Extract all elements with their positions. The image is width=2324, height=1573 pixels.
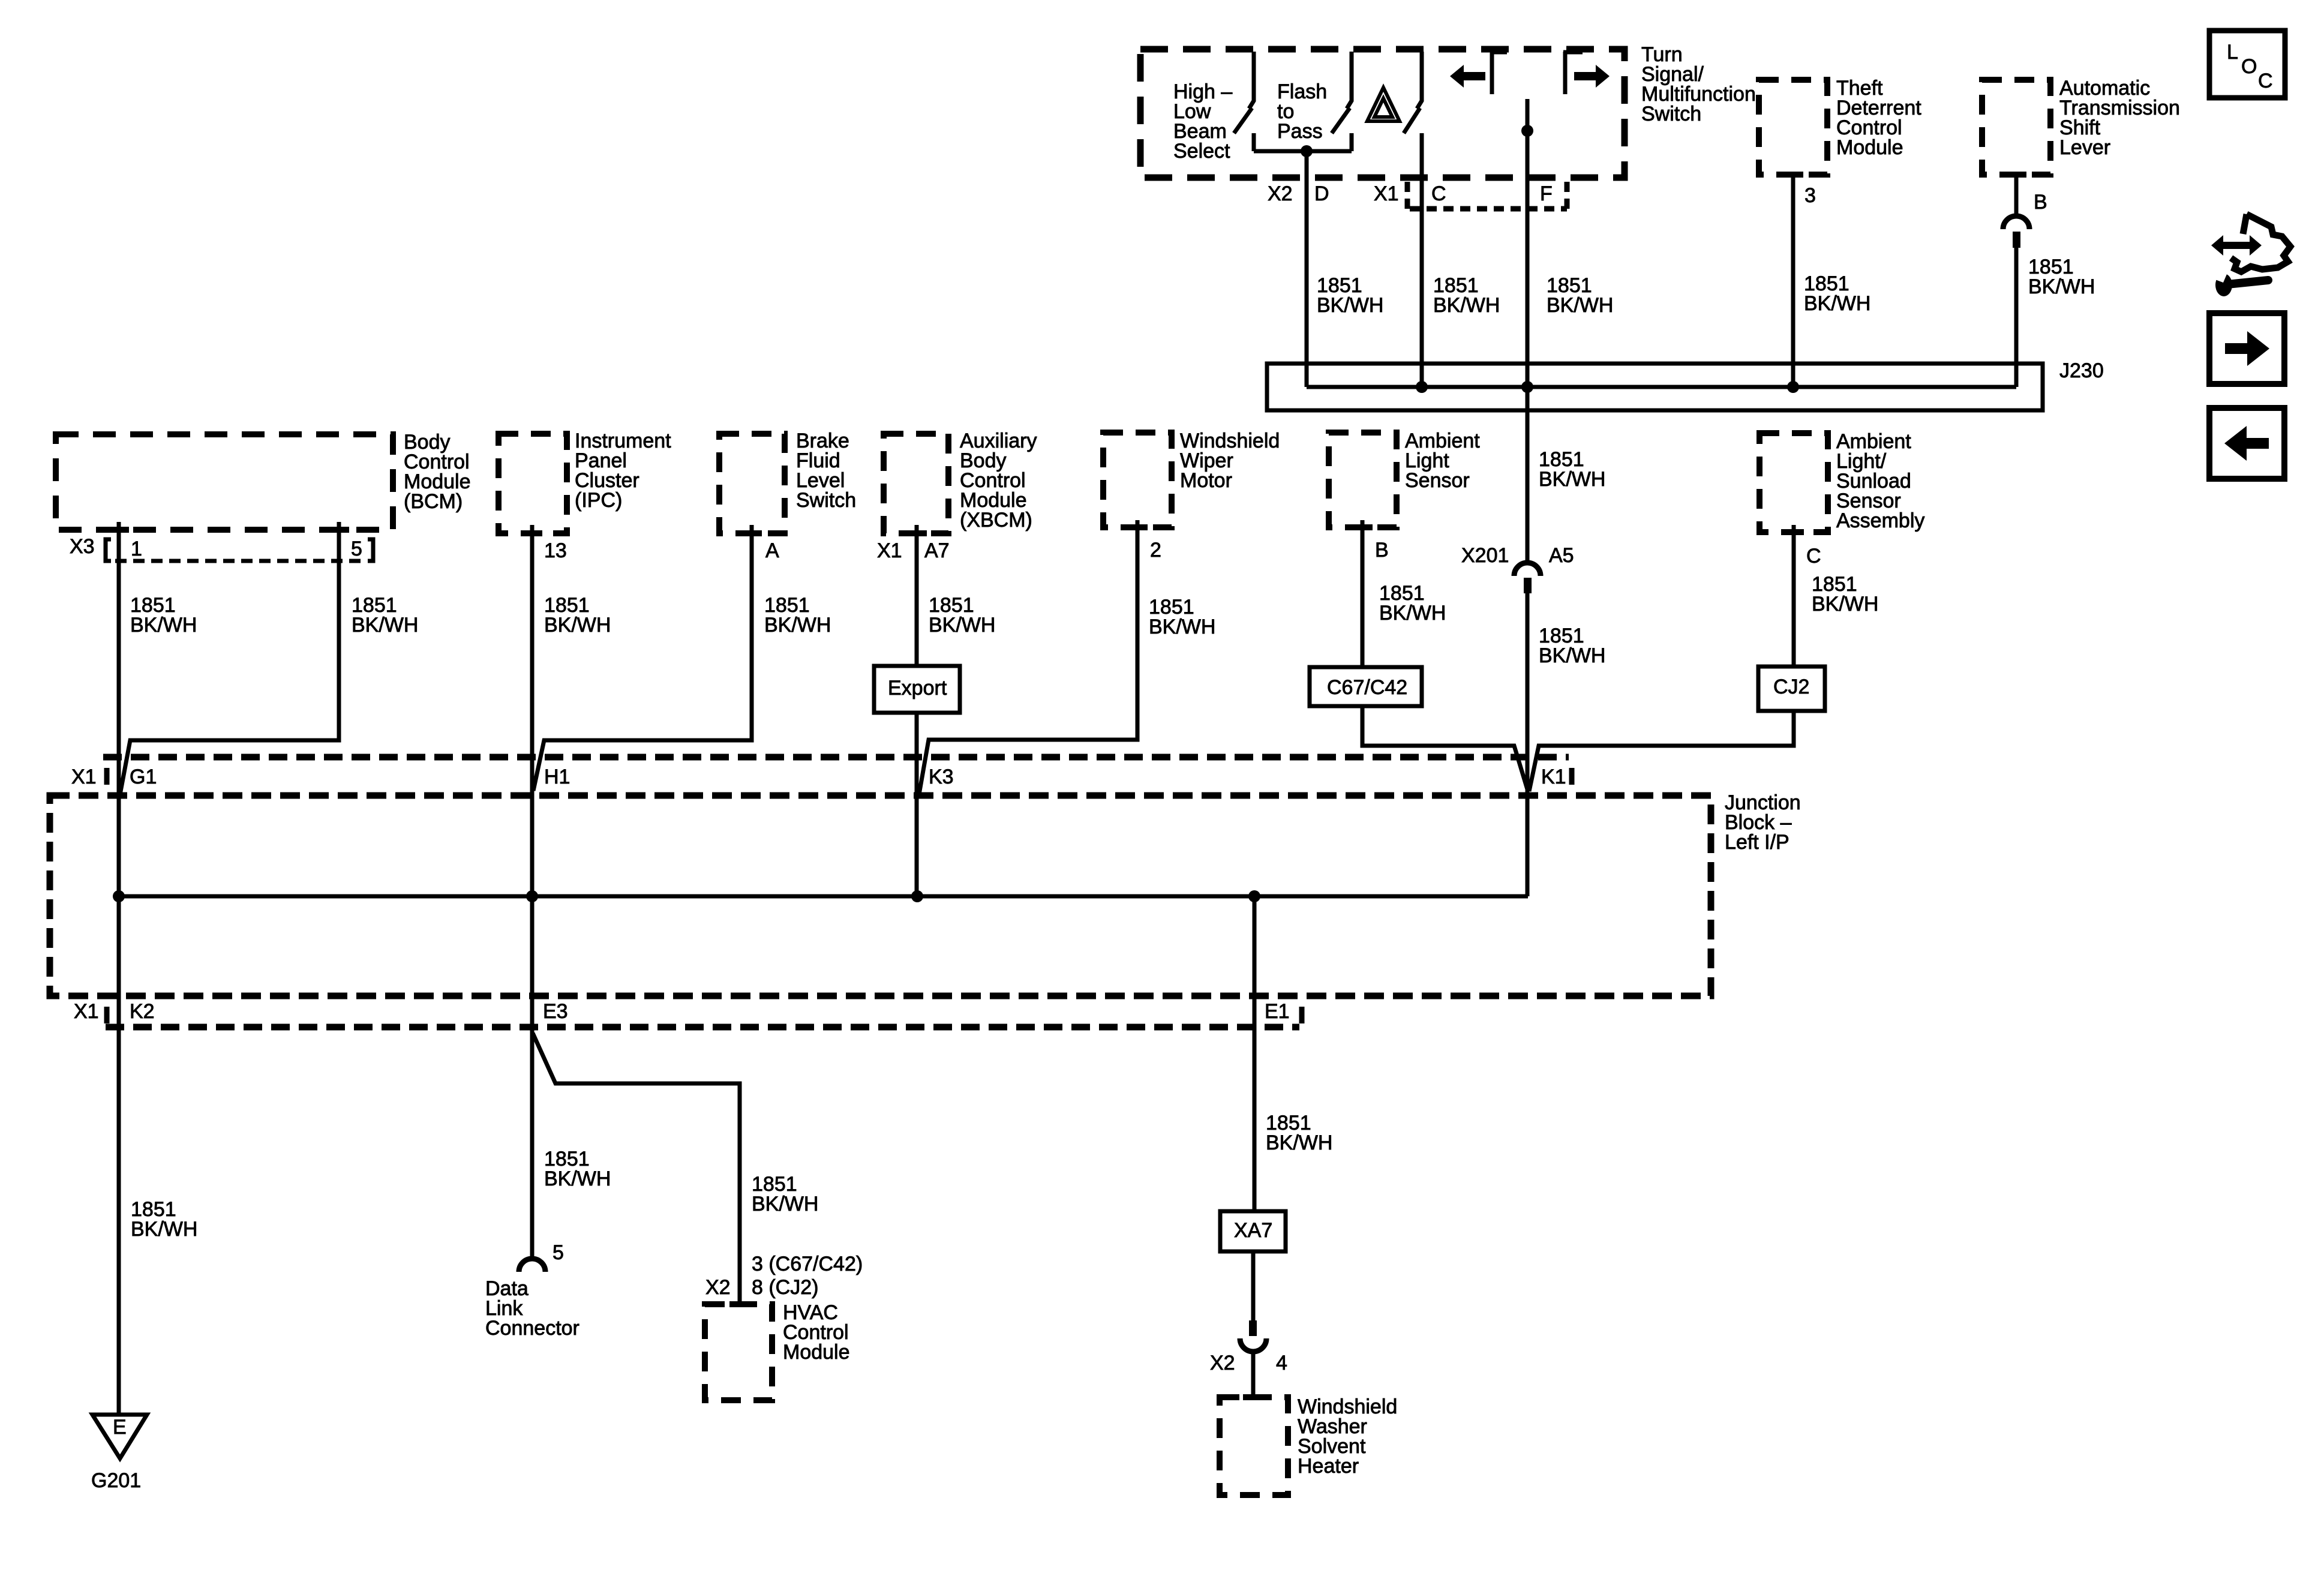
wire label 1851 BK/WH (D wire) — [1317, 274, 1383, 317]
wire label 1851 BK/WH (XBCM wire) — [929, 594, 995, 637]
wire label 1851 BK/WH (shift lever wire) — [2028, 256, 2095, 298]
data link connector female terminal — [519, 1259, 545, 1272]
label: Flash to Pass — [1277, 80, 1327, 143]
svg-text:13: 13 — [544, 539, 567, 562]
service information icon: panel outline — [2231, 214, 2290, 272]
svg-text:5: 5 — [553, 1241, 564, 1264]
connector X3 dashed strip — [115, 559, 365, 563]
svg-text:BK/WH: BK/WH — [1433, 294, 1500, 317]
X1 bottom strip left bracket — [104, 1007, 110, 1023]
label: Brake Fluid Level Switch — [796, 430, 856, 512]
svg-text:Module: Module — [783, 1341, 850, 1364]
junction dot F wire at J230 — [1521, 381, 1533, 393]
C67/C42 option box — [1310, 667, 1422, 706]
svg-text:L: L — [2227, 41, 2238, 64]
label: Ambient Light/Sunload Sensor Assembly — [1836, 430, 1924, 532]
turn signal / multifunction switch module box — [1140, 49, 1625, 178]
svg-text:O: O — [2241, 55, 2257, 78]
svg-text:K1: K1 — [1541, 766, 1566, 788]
svg-text:3 (C67/C42): 3 (C67/C42) — [752, 1253, 863, 1275]
connector X3 left bracket — [106, 539, 111, 561]
wire: ambient light sensor pin B to junction block K1 entry — [1362, 520, 1528, 791]
label: Turn Signal/Multifunction Switch — [1641, 43, 1756, 125]
svg-text:BK/WH: BK/WH — [1149, 616, 1215, 638]
label: HVAC Control Module — [783, 1301, 850, 1364]
wire label 1851 BK/WH (E3/DLC wire) — [544, 1148, 611, 1190]
wire: connector to windshield washer solvent heater — [1251, 1351, 1256, 1397]
svg-text:XA7: XA7 — [1234, 1219, 1272, 1242]
svg-text:BK/WH: BK/WH — [1539, 644, 1605, 667]
inline connector male terminal — [2013, 232, 2020, 248]
wire label 1851 BK/WH (A5 wire) — [1539, 625, 1605, 667]
svg-text:C67/C42: C67/C42 — [1327, 676, 1407, 699]
connector X1 small dashed box under switch — [1407, 182, 1567, 211]
junction dot G1/K2 — [113, 890, 125, 902]
svg-text:BK/WH: BK/WH — [752, 1193, 818, 1215]
X1 top strip right bracket — [1569, 768, 1575, 785]
wire: brake fluid level switch pin A to H1 entry — [533, 525, 752, 791]
wire: pin D to splice pack — [1305, 151, 1309, 387]
connector X3 right bracket — [368, 539, 373, 561]
inline connector X2 male terminal — [1249, 1320, 1257, 1336]
svg-text:A7: A7 — [924, 539, 950, 562]
svg-text:3: 3 — [1804, 184, 1816, 207]
wire: pin F down through splice pack — [1526, 151, 1530, 410]
svg-text:BK/WH: BK/WH — [544, 1167, 611, 1190]
theft deterrent control module box — [1759, 80, 1827, 175]
inline connector (female half) on shift lever wire — [2003, 216, 2029, 229]
label: Data Link Connector — [485, 1277, 580, 1340]
ground symbol E — [92, 1415, 147, 1458]
wire label 1851 BK/WH (BCM pin 1) — [130, 594, 197, 637]
inline connector X201 male terminal — [1524, 578, 1532, 593]
svg-text:Connector: Connector — [485, 1317, 580, 1340]
label: Auxiliary Body Control Module (XBCM) — [960, 430, 1037, 532]
left turn arrow icon — [1450, 65, 1485, 88]
svg-text:Switch: Switch — [796, 489, 856, 512]
svg-text:G201: G201 — [91, 1469, 141, 1492]
svg-text:X3: X3 — [70, 535, 95, 558]
wire: shift lever pin B upper stub — [2014, 172, 2019, 215]
wire label 1851 BK/WH (brake fluid wire) — [764, 594, 831, 637]
wire: A5 down to junction block K1 — [1526, 593, 1530, 896]
svg-text:B: B — [2034, 191, 2047, 214]
svg-text:BK/WH: BK/WH — [352, 614, 418, 637]
svg-text:BK/WH: BK/WH — [1547, 294, 1613, 317]
wire: theft deterrent pin 3 to splice pack — [1791, 172, 1795, 387]
svg-text:K2: K2 — [130, 1000, 155, 1023]
windshield washer solvent heater box — [1220, 1397, 1288, 1495]
brake fluid level switch box — [719, 434, 785, 533]
svg-text:X1: X1 — [74, 1000, 99, 1023]
wire: junction block internal ground bus — [119, 894, 1528, 899]
connector labels X2 D at multifunction switch — [1268, 182, 1553, 205]
svg-text:Lever: Lever — [2059, 136, 2110, 159]
svg-text:BK/WH: BK/WH — [130, 614, 197, 637]
instrument panel cluster (IPC) box — [499, 434, 567, 533]
wire label 1851 BK/WH (theft wire) — [1804, 272, 1870, 315]
svg-text:BK/WH: BK/WH — [929, 614, 995, 637]
label: Windshield Wiper Motor — [1180, 430, 1280, 492]
label: High - Low Beam Select — [1173, 80, 1232, 163]
label: Windshield Washer Solvent Heater — [1298, 1395, 1397, 1478]
svg-text:Export: Export — [888, 677, 947, 700]
inline connector X2 female half — [1240, 1338, 1266, 1352]
label: Theft Deterrent Control Module — [1836, 77, 1921, 159]
junction block X1 top connector strip — [103, 754, 1569, 761]
wire label 1851 BK/WH (F wire below J230) — [1539, 448, 1605, 491]
svg-text:D: D — [1314, 182, 1329, 205]
left arrow legend box — [2209, 408, 2284, 479]
svg-text:Motor: Motor — [1180, 469, 1232, 492]
wire label 1851 BK/WH (F wire) — [1547, 274, 1613, 317]
label: Ambient Light Sensor — [1405, 430, 1480, 492]
label: Junction Block - Left I/P — [1725, 791, 1801, 854]
svg-text:BK/WH: BK/WH — [1379, 602, 1446, 625]
svg-text:Select: Select — [1173, 140, 1230, 163]
wire label 1851 BK/WH (sunload wire) — [1812, 573, 1878, 616]
wire: turn signal common feed (pin F) upper stub — [1526, 99, 1530, 151]
service information icon: wrench — [2214, 271, 2268, 296]
svg-text:Pass: Pass — [1277, 120, 1323, 143]
svg-text:J230: J230 — [2059, 359, 2104, 382]
Export option box — [874, 666, 960, 713]
wire label 1851 BK/WH (E1 wire) — [1266, 1112, 1332, 1154]
switch: hazard — [1404, 52, 1422, 133]
svg-text:H1: H1 — [544, 766, 570, 788]
svg-text:A5: A5 — [1549, 544, 1574, 567]
svg-text:E: E — [113, 1416, 127, 1439]
wire: XA7 down to inline connector — [1251, 1251, 1256, 1323]
auxiliary body control module (XBCM) box — [884, 434, 948, 533]
junction dot E1 branch — [1248, 890, 1260, 902]
wire label 1851 BK/WH (BCM pin 5) — [352, 594, 418, 637]
X1 bottom strip right bracket — [1299, 1007, 1305, 1023]
svg-text:CJ2: CJ2 — [1773, 676, 1809, 698]
svg-text:B: B — [1375, 539, 1389, 562]
wire label 1851 BK/WH (IPC wire) — [544, 594, 611, 637]
switch: flash to pass — [1332, 52, 1352, 151]
service information icon: double arrow — [2211, 235, 2262, 256]
label: Automatic Transmission Shift Lever — [2059, 77, 2180, 159]
left turn contact bar — [1490, 52, 1507, 94]
svg-text:X2: X2 — [1210, 1352, 1235, 1374]
wire label 1851 BK/WH (K2 ground wire) — [131, 1198, 197, 1241]
wire: pin C to splice pack — [1420, 133, 1424, 387]
svg-text:A: A — [765, 539, 779, 562]
svg-text:Left I/P: Left I/P — [1725, 831, 1789, 854]
hazard warning triangle icon — [1367, 88, 1400, 121]
junction dot on turn signal feed — [1521, 125, 1533, 137]
junction dot K3 — [911, 890, 923, 902]
LOC legend box — [2209, 31, 2285, 98]
splice pack J230 internal bus wire — [1307, 385, 2016, 389]
svg-text:X1: X1 — [877, 539, 902, 562]
windshield wiper motor box — [1103, 433, 1172, 527]
label: Instrument Panel Cluster (IPC) — [575, 430, 671, 512]
svg-text:BK/WH: BK/WH — [2028, 275, 2095, 298]
svg-text:K3: K3 — [929, 766, 954, 788]
svg-text:BK/WH: BK/WH — [1317, 294, 1383, 317]
body control module (BCM) box — [56, 434, 393, 530]
right turn arrow icon — [1574, 65, 1610, 88]
svg-text:BK/WH: BK/WH — [764, 614, 831, 637]
svg-text:X1: X1 — [71, 766, 97, 788]
svg-text:E1: E1 — [1265, 1000, 1290, 1023]
inline connector X201 female half — [1514, 563, 1541, 576]
junction dot H1/E3 — [526, 890, 538, 902]
wire: BCM pin 5 over to G1 entry — [119, 522, 339, 798]
svg-text:X201: X201 — [1461, 544, 1509, 567]
svg-text:1: 1 — [131, 538, 142, 560]
wire: E1 branch down out of junction block — [1253, 896, 1257, 1211]
svg-text:8 (CJ2): 8 (CJ2) — [752, 1276, 818, 1299]
svg-text:4: 4 — [1276, 1352, 1287, 1374]
svg-text:C: C — [2258, 70, 2273, 92]
XA7 option box — [1220, 1211, 1286, 1251]
svg-text:Assembly: Assembly — [1836, 509, 1924, 532]
switch: high-low beam select — [1234, 52, 1254, 151]
right turn contact bar — [1563, 52, 1583, 94]
svg-text:Module: Module — [1836, 136, 1903, 159]
wire: E3 branch to HVAC control module — [533, 1033, 740, 1305]
svg-text:BK/WH: BK/WH — [1266, 1131, 1332, 1154]
junction block - left I/P box — [50, 795, 1711, 996]
svg-text:C: C — [1431, 182, 1446, 205]
svg-text:X1: X1 — [1374, 182, 1399, 205]
svg-text:Switch: Switch — [1641, 103, 1701, 125]
HVAC control module box — [705, 1304, 772, 1400]
svg-text:G1: G1 — [130, 766, 157, 788]
wire: F wire from J230 down to X201 — [1526, 410, 1530, 563]
svg-text:Heater: Heater — [1298, 1455, 1359, 1478]
box-edge contact dashes at wire exits — [109, 175, 2026, 1397]
svg-text:E3: E3 — [543, 1000, 568, 1023]
svg-text:(XBCM): (XBCM) — [960, 509, 1032, 532]
wire: shift lever to splice pack right end — [2014, 248, 2019, 387]
svg-text:(IPC): (IPC) — [575, 489, 622, 512]
svg-text:2: 2 — [1150, 539, 1161, 562]
svg-text:BK/WH: BK/WH — [1812, 593, 1878, 616]
svg-text:Sensor: Sensor — [1405, 469, 1470, 492]
junction dot on common bar (pin D) — [1301, 145, 1313, 157]
ambient light sensor box — [1329, 433, 1397, 527]
svg-text:5: 5 — [351, 538, 362, 560]
ambient light/sunload sensor assembly box — [1759, 433, 1828, 532]
wire: XBCM pin A7 down through Export box to junction block K3 — [915, 525, 919, 896]
splice pack J230 outline — [1267, 364, 2043, 410]
svg-text:BK/WH: BK/WH — [544, 614, 611, 637]
svg-text:X2: X2 — [1268, 182, 1293, 205]
wire: common bar joining beam and flash switches — [1254, 149, 1352, 154]
wire label 1851 BK/WH (ambient light wire) — [1379, 582, 1446, 625]
svg-text:BK/WH: BK/WH — [1804, 292, 1870, 315]
svg-text:BK/WH: BK/WH — [1539, 468, 1605, 491]
CJ2 option box — [1758, 667, 1825, 711]
svg-text:(BCM): (BCM) — [404, 490, 463, 513]
automatic transmission shift lever box — [1982, 80, 2050, 175]
junction dot C wire at J230 — [1416, 381, 1428, 393]
wire label 1851 BK/WH (HVAC branch) — [752, 1173, 818, 1215]
label: Body Control Module (BCM) — [404, 431, 471, 513]
junction block X1 bottom connector strip — [106, 1024, 1299, 1031]
wire label 1851 BK/WH (C wire) — [1433, 274, 1500, 317]
X1 top strip left bracket — [104, 768, 110, 785]
wire label 1851 BK/WH (wiper wire) — [1149, 596, 1215, 638]
svg-text:BK/WH: BK/WH — [131, 1218, 197, 1241]
svg-text:X2: X2 — [705, 1276, 731, 1299]
svg-text:F: F — [1540, 182, 1553, 205]
wire: IPC pin 13 down through junction block H1/E3 to data link connector — [530, 525, 535, 1258]
wire: ambient light/sunload sensor pin C to junction block K1 entry — [1529, 525, 1794, 791]
right arrow legend box — [2209, 313, 2284, 384]
wire: wiper motor pin 2 to junction block K3 entry — [918, 520, 1137, 798]
junction dot theft wire at J230 — [1787, 381, 1799, 393]
wire: K1 wire down into junction block — [1526, 791, 1530, 896]
svg-text:C: C — [1806, 545, 1821, 568]
wire: BCM pin 1 down to junction block G1 and on to ground — [117, 522, 121, 1415]
